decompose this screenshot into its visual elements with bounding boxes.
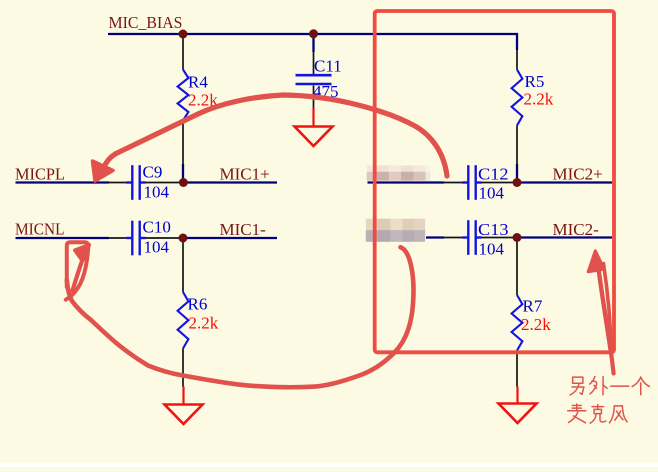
svg-text:C10: C10: [143, 218, 171, 237]
svg-text:R6: R6: [188, 295, 208, 314]
svg-text:104: 104: [479, 183, 505, 202]
svg-text:104: 104: [144, 238, 170, 257]
svg-text:MIC_BIAS: MIC_BIAS: [109, 13, 183, 32]
svg-text:2.2k: 2.2k: [524, 89, 554, 108]
svg-text:MICNL: MICNL: [15, 219, 65, 238]
svg-text:2.2k: 2.2k: [189, 314, 219, 333]
svg-text:C9: C9: [143, 162, 163, 181]
svg-text:104: 104: [479, 239, 505, 258]
svg-text:MICPL: MICPL: [15, 164, 65, 183]
svg-text:104: 104: [144, 182, 170, 201]
svg-text:2.2k: 2.2k: [521, 315, 551, 334]
svg-text:R4: R4: [188, 72, 208, 91]
svg-text:MIC2-: MIC2-: [553, 220, 600, 239]
svg-text:R7: R7: [523, 296, 543, 315]
svg-text:MIC1+: MIC1+: [220, 164, 270, 183]
svg-text:C11: C11: [314, 56, 342, 75]
svg-text:C12: C12: [478, 165, 509, 184]
svg-text:MIC2+: MIC2+: [553, 165, 603, 184]
svg-text:MIC1-: MIC1-: [220, 220, 267, 239]
svg-text:C13: C13: [478, 220, 509, 239]
svg-text:R5: R5: [525, 72, 545, 91]
